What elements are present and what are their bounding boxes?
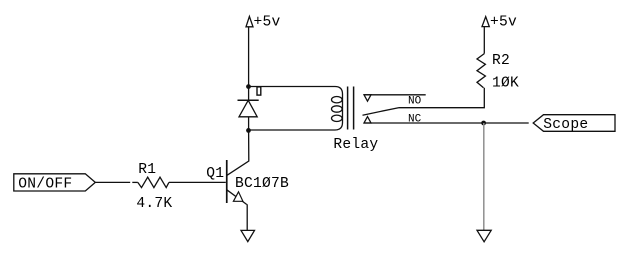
- wire +5v to relay top node: [248, 27, 250, 101]
- svg-text:Scope: Scope: [543, 117, 588, 133]
- svg-text:BC1Ø7B: BC1Ø7B: [235, 176, 289, 192]
- ground (left): [241, 230, 255, 241]
- node junction dot (relay coil bottom / collector): [246, 128, 251, 133]
- node junction dot (scope output): [481, 121, 486, 126]
- transistor Q1 emitter: [227, 190, 247, 205]
- svg-text:R2: R2: [492, 53, 510, 69]
- wire emitter to ground: [246, 204, 249, 230]
- power symbol +5v (left): [246, 15, 281, 31]
- ground (right): [477, 230, 491, 242]
- wire pin segment to R1: [132, 181, 138, 183]
- flag Scope: [533, 115, 615, 133]
- node junction dot (relay coil top / diode cathode): [246, 84, 251, 89]
- relay core bars: [348, 87, 354, 130]
- svg-text:Q1: Q1: [206, 166, 224, 182]
- svg-text:4.7K: 4.7K: [136, 196, 172, 212]
- resistor R2 (vertical zigzag): [477, 54, 485, 88]
- wire R1 to Q1 base: [169, 181, 226, 183]
- svg-text:+5v: +5v: [254, 15, 281, 31]
- wire ON/OFF to R1: [95, 181, 130, 183]
- wire pole to R2 bottom: [399, 88, 485, 108]
- wire +5v to R2 top: [483, 27, 485, 54]
- transistor Q1 base bar: [226, 160, 228, 203]
- power symbol +5v (right): [482, 15, 517, 31]
- wire relay bottom node to Q1 collector: [227, 130, 249, 175]
- wire scope node to ground: [483, 123, 485, 230]
- svg-text:R1: R1: [138, 162, 156, 178]
- relay contact NC (arrow A): [364, 113, 529, 125]
- diode D1 (flyback across relay coil): [238, 100, 259, 130]
- svg-text:NC: NC: [408, 113, 422, 125]
- flag ON/OFF: [14, 174, 96, 193]
- svg-text:Relay: Relay: [333, 137, 378, 153]
- svg-text:NO: NO: [408, 95, 422, 107]
- resistor R1 (horizontal zigzag): [138, 177, 169, 187]
- svg-text:+5v: +5v: [490, 15, 517, 31]
- svg-text:1ØK: 1ØK: [492, 75, 519, 91]
- relay coil K1 (box with coil loops): [249, 87, 343, 131]
- relay armature (common pole diagonal): [363, 108, 399, 116]
- svg-text:ON/OFF: ON/OFF: [18, 176, 72, 192]
- relay contact NO (arrow V): [364, 95, 426, 108]
